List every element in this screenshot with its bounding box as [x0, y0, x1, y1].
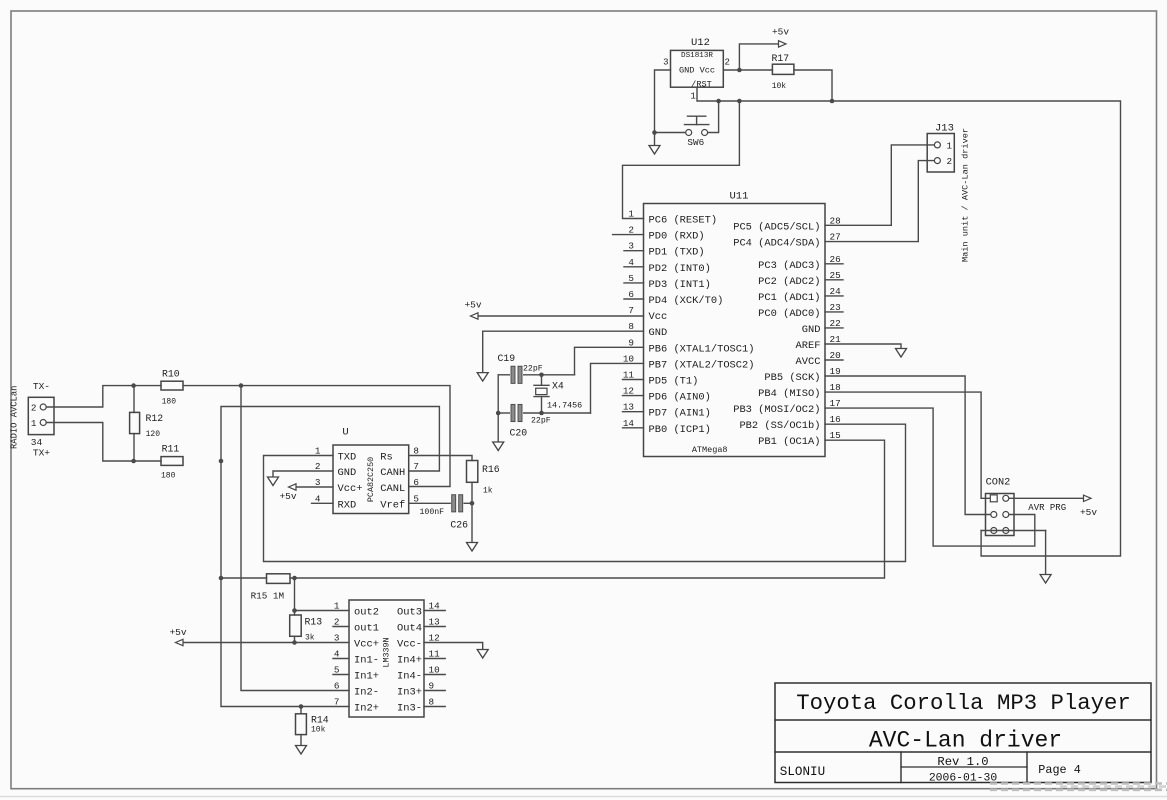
- svg-text:CON2: CON2: [986, 477, 1011, 489]
- svg-text:Vcc-: Vcc-: [397, 639, 422, 651]
- svg-text:DS1813R: DS1813R: [681, 52, 713, 60]
- svg-text:/RST: /RST: [691, 80, 712, 90]
- U pin 2/7 labels: [315, 461, 419, 479]
- node junction R11/CANH/In2+: [219, 459, 224, 464]
- svg-text:U11: U11: [730, 191, 749, 203]
- wire In2- vertical: [241, 386, 349, 691]
- node junction PC6 branch: [737, 99, 742, 104]
- svg-text:C20: C20: [510, 428, 528, 439]
- svg-text:GND: GND: [802, 324, 821, 336]
- svg-text:Vcc+: Vcc+: [354, 639, 379, 651]
- U pin 4/5 labels: [315, 493, 419, 511]
- U pin 3/6 labels: [315, 477, 419, 495]
- U11 pin 3 PD1 (TXD): [624, 241, 705, 259]
- svg-text:C26: C26: [450, 520, 468, 531]
- IC LM339N box: [349, 600, 424, 717]
- wire R11 to CANH: [221, 407, 439, 472]
- resistor R11: [161, 444, 183, 481]
- svg-text:U: U: [342, 427, 348, 439]
- resistor R16: [467, 461, 500, 496]
- ground (Vref/C26): [467, 543, 478, 552]
- svg-text:CANL: CANL: [380, 483, 405, 495]
- node junction R14/In2+ line: [299, 704, 304, 709]
- wire XTAL2 pin10 to C20/X4: [591, 363, 644, 413]
- wire Vcc pin7 to +5v arrow: [478, 315, 644, 317]
- svg-text:In1+: In1+: [354, 671, 379, 683]
- U11 pin 20 AVCC: [796, 350, 843, 368]
- svg-text:R17: R17: [772, 53, 790, 64]
- svg-text:7: 7: [413, 461, 419, 472]
- ground (C19/C20): [493, 442, 504, 451]
- svg-text:PD2 (INT0): PD2 (INT0): [649, 263, 711, 275]
- U11 pin 16 PB2 (SS/OC1b): [739, 414, 840, 432]
- power +5v (CON2): [1080, 495, 1097, 518]
- U11 pin 14 PB0 (ICP1): [623, 418, 711, 436]
- wire XTAL1 pin9 to C19/X4: [575, 347, 644, 375]
- node junction C20/X4 bottom: [539, 411, 544, 416]
- wire Vref node to ground: [471, 503, 473, 542]
- svg-text:AVR PRG: AVR PRG: [1028, 503, 1066, 513]
- U11 pin 13 PD7 (AIN1): [623, 402, 711, 420]
- svg-text:3k: 3k: [305, 634, 315, 643]
- svg-text:1: 1: [628, 209, 634, 220]
- svg-text:PC6 (RESET): PC6 (RESET): [649, 215, 718, 227]
- svg-text:PB6 (XTAL1/TOSC1): PB6 (XTAL1/TOSC1): [649, 343, 755, 355]
- svg-text:R12: R12: [146, 413, 164, 424]
- ground (R14): [296, 746, 307, 755]
- IC U12 box (DS1813R): [671, 37, 724, 90]
- svg-text:PC3 (ADC3): PC3 (ADC3): [758, 260, 820, 272]
- svg-text:PC0 (ADC0): PC0 (ADC0): [758, 308, 820, 320]
- ground (AREF): [896, 349, 907, 358]
- U12 pin 1 label: [690, 92, 695, 102]
- svg-text:PD6 (AIN0): PD6 (AIN0): [649, 392, 711, 404]
- svg-text:In2-: In2-: [354, 687, 379, 699]
- U11 pin 19 PB5 (SCK): [764, 366, 840, 384]
- svg-text:2: 2: [947, 156, 953, 167]
- IC U box (PCA82C250): [333, 427, 409, 514]
- label AVR PRG: [1028, 503, 1066, 513]
- node junction C19/X4 top: [539, 373, 544, 378]
- svg-text:In4+: In4+: [397, 655, 422, 667]
- svg-text:R13: R13: [305, 617, 323, 628]
- svg-text:AVC-Lan driver: AVC-Lan driver: [869, 728, 1062, 754]
- node junction R10/In2- branch: [239, 383, 244, 388]
- svg-text:In1-: In1-: [354, 655, 379, 667]
- wire U12 pin3 to SW6 and ground: [655, 70, 671, 146]
- svg-text:+5v: +5v: [772, 27, 789, 38]
- svg-text:Rs: Rs: [380, 452, 392, 464]
- node junction R12 bottom: [131, 459, 136, 464]
- svg-text:GND: GND: [338, 467, 357, 479]
- svg-text:PD7 (AIN1): PD7 (AIN1): [649, 408, 711, 420]
- resistor R12: [130, 386, 164, 461]
- ground (U11 pin8): [477, 373, 488, 382]
- wire Vref pin5 to C26: [408, 502, 410, 504]
- LM339 pin 1/14 out2/Out3: [334, 601, 445, 619]
- ground (below SW6 left): [649, 146, 660, 155]
- switch SW6: [685, 116, 709, 148]
- U pin 1/8 labels: [315, 446, 419, 464]
- node junction R15 left: [219, 576, 224, 581]
- U11 pin 23 PC0 (ADC0): [758, 302, 843, 320]
- wire PC4/SDA to J13 pin2: [825, 161, 934, 242]
- node junction R12 top: [131, 383, 136, 388]
- connector CON2 box: [986, 477, 1015, 536]
- wire R15 left to In2+ vertical: [221, 577, 267, 579]
- svg-text:AREF: AREF: [796, 340, 821, 352]
- wire GND pin8 to ground: [483, 331, 644, 372]
- wire U GND pin2 to ground: [273, 471, 333, 477]
- U11 pin 4 PD2 (INT0): [624, 257, 711, 275]
- label Main unit / AVC-Lan driver: [961, 128, 971, 262]
- wire C20 row: [498, 412, 590, 414]
- svg-text:14.7456: 14.7456: [547, 401, 582, 411]
- wire Vref row: [409, 502, 472, 504]
- node junction pin3/SW6/gnd: [652, 130, 657, 135]
- U11 pin 7 Vcc: [628, 305, 667, 323]
- U11 pin 28 PC5 (ADC5/SCL): [733, 215, 840, 233]
- svg-text:GND Vcc: GND Vcc: [679, 66, 715, 76]
- label RADIO AVCLan: [10, 386, 20, 449]
- svg-text:PD1 (TXD): PD1 (TXD): [649, 247, 705, 259]
- ground (CON2): [1040, 575, 1051, 584]
- svg-text:22pF: 22pF: [523, 365, 543, 374]
- wire U Vcc+ pin3 to +5v arrow: [296, 486, 333, 488]
- svg-text:1: 1: [315, 446, 321, 457]
- svg-text:J13: J13: [935, 123, 954, 135]
- svg-text:In2+: In2+: [354, 703, 379, 715]
- node junction +5v branch: [737, 68, 742, 73]
- svg-text:C19: C19: [498, 353, 516, 364]
- wire SW6 left contact: [655, 132, 686, 134]
- U11 pin 5 PD3 (INT1): [624, 273, 711, 291]
- svg-text:R10: R10: [162, 369, 180, 380]
- svg-text:CANH: CANH: [380, 467, 405, 479]
- resistor R10: [161, 369, 183, 407]
- LM339 pin 3/12 Vcc+/Vcc-: [334, 633, 440, 651]
- wire RESET rail (U12 pin1 to CON2): [697, 87, 1121, 556]
- U11 pin 8 GND: [628, 321, 667, 339]
- U11 pin 18 PB4 (MISO): [758, 382, 841, 400]
- svg-text:SLONIU: SLONIU: [780, 765, 825, 779]
- U12 pin 2 label: [725, 58, 730, 68]
- resistor R17: [772, 53, 794, 91]
- svg-text:out2: out2: [354, 607, 379, 619]
- svg-text:180: 180: [161, 472, 176, 481]
- wire MOSI to CON2: [825, 408, 1035, 546]
- node junction R13/Vcc+ line: [292, 640, 297, 645]
- node junction C20 left: [496, 411, 501, 416]
- svg-text:U12: U12: [691, 37, 710, 49]
- wire CON2 ground leg: [1045, 531, 1047, 575]
- svg-text:34: 34: [31, 437, 43, 448]
- svg-text:PB2 (SS/OC1b): PB2 (SS/OC1b): [739, 420, 820, 432]
- U11 pin 6 PD4 (XCK/T0): [624, 289, 723, 307]
- svg-text:PD3 (INT1): PD3 (INT1): [649, 279, 711, 291]
- wire crystal ground leg: [497, 375, 499, 442]
- svg-text:TXD: TXD: [338, 452, 357, 464]
- U11 pin 25 PC2 (ADC2): [758, 270, 843, 288]
- svg-text:Out4: Out4: [397, 623, 422, 635]
- svg-text:Vcc+: Vcc+: [338, 483, 363, 495]
- U12 pin 3 label: [663, 58, 668, 68]
- svg-text:7: 7: [628, 305, 634, 316]
- wire SW6 right to RESET rail: [708, 101, 719, 133]
- svg-text:AVCC: AVCC: [796, 356, 821, 368]
- wire PB1/OC1A to R15 node: [295, 440, 885, 578]
- U11 pin 11 PD5 (T1): [623, 370, 699, 388]
- svg-text:+5v: +5v: [1080, 507, 1097, 518]
- wire TX- pin2 to R10: [46, 386, 161, 407]
- resistor R13: [290, 611, 323, 643]
- svg-text:PD5 (T1): PD5 (T1): [649, 376, 699, 388]
- svg-text:PCA82C250: PCA82C250: [366, 457, 376, 502]
- U11 pin 9 PB6 (XTAL1/TOSC1): [628, 337, 754, 355]
- svg-text:2: 2: [31, 403, 37, 414]
- svg-text:1k: 1k: [483, 487, 493, 496]
- svg-text:Main unit / AVC-Lan driver: Main unit / AVC-Lan driver: [961, 128, 971, 262]
- ground (U pin2): [268, 477, 279, 486]
- svg-text:In3+: In3+: [397, 687, 422, 699]
- node junction R15/OC1A: [292, 576, 297, 581]
- title block frame: [775, 683, 1151, 783]
- node junction out2/R13: [292, 608, 297, 613]
- svg-text:Rev 1.0: Rev 1.0: [937, 755, 988, 769]
- svg-text:TX+: TX+: [33, 448, 50, 459]
- capacitor C26: [420, 495, 469, 531]
- resistor R14: [296, 707, 329, 746]
- wire +5v to LM339 Vcc+ pin3: [183, 642, 349, 644]
- wire LM339 Vcc- pin12 to ground: [424, 643, 483, 650]
- wire CON2 +5v: [1009, 497, 1084, 499]
- U11 pin 26 PC3 (ADC3): [758, 254, 843, 272]
- svg-text:100nF: 100nF: [420, 508, 445, 517]
- svg-text:PC4 (ADC4/SDA): PC4 (ADC4/SDA): [733, 238, 820, 250]
- svg-text:+5v: +5v: [169, 627, 186, 638]
- wire U12 pin2 to R17: [723, 69, 772, 71]
- svg-text:1: 1: [31, 418, 37, 429]
- svg-text:180: 180: [162, 398, 177, 407]
- power +5v (U11 Vcc): [464, 300, 481, 320]
- U pin4 RXD stub: [312, 502, 333, 504]
- LM339 pin 4/11 In1-/In4+: [333, 649, 445, 667]
- svg-text:22pF: 22pF: [531, 417, 551, 426]
- LM339 pin 6/9 In2-/In3+: [334, 681, 445, 699]
- author SLONIU: [780, 765, 825, 779]
- page text: [1038, 763, 1080, 777]
- svg-text:PC5 (ADC5/SCL): PC5 (ADC5/SCL): [733, 221, 820, 233]
- wire +5v branch at U12: [739, 44, 778, 70]
- svg-text:R16: R16: [482, 464, 500, 475]
- connector J13: [927, 123, 954, 173]
- capacitor C20: [510, 404, 551, 438]
- U11 pin 27 PC4 (ADC4/SDA): [733, 232, 840, 250]
- svg-text:Page 4: Page 4: [1038, 763, 1080, 777]
- svg-text:R14: R14: [311, 715, 329, 726]
- svg-text:7: 7: [334, 697, 340, 708]
- power +5v (top): [772, 27, 789, 48]
- svg-text:Out3: Out3: [397, 607, 422, 619]
- wire C19 row: [498, 374, 574, 376]
- wire PC5/SCL to J13 pin1: [825, 145, 934, 225]
- svg-text:2: 2: [725, 58, 730, 68]
- svg-text:TX-: TX-: [33, 381, 50, 392]
- U11 pin 17 PB3 (MOSI/OC2): [733, 398, 840, 416]
- wire TX+ pin1 to R11: [46, 423, 161, 462]
- svg-text:ATMega8: ATMega8: [692, 445, 728, 455]
- svg-text:+5v: +5v: [279, 491, 296, 502]
- rev text: [937, 755, 988, 769]
- svg-text:6: 6: [334, 681, 340, 692]
- watermark (bottom right): [990, 784, 1167, 790]
- U11 pin 12 PD6 (AIN0): [623, 386, 711, 404]
- wire Rs pin8 to R16: [409, 456, 472, 461]
- svg-text:Vcc: Vcc: [649, 311, 668, 323]
- node junction Vref/R16: [470, 501, 475, 506]
- svg-text:PB7 (XTAL2/TOSC2): PB7 (XTAL2/TOSC2): [649, 359, 755, 371]
- svg-text:Vref: Vref: [380, 499, 405, 511]
- svg-text:RADIO AVCLan: RADIO AVCLan: [10, 386, 20, 449]
- svg-text:GND: GND: [649, 327, 668, 339]
- svg-text:LM339N: LM339N: [382, 637, 392, 667]
- crystal X4: [534, 375, 582, 413]
- date text: [929, 773, 998, 785]
- page bottom paper edge: [0, 796, 1167, 798]
- LM339 pin 5/10 In1+/In4-: [333, 665, 445, 683]
- svg-text:PB1 (OC1A): PB1 (OC1A): [758, 436, 820, 448]
- svg-text:out1: out1: [354, 623, 379, 635]
- svg-text:In3-: In3-: [397, 703, 422, 715]
- svg-text:PB4 (MISO): PB4 (MISO): [758, 388, 820, 400]
- LM339 pin 2/13 out1/Out4: [333, 617, 445, 635]
- svg-text:10k: 10k: [311, 726, 326, 735]
- U11 pin 10 PB7 (XTAL2/TOSC2): [623, 353, 755, 371]
- wire CON2 bottom row: [981, 530, 1046, 532]
- subtitle text: [869, 728, 1062, 754]
- svg-text:2006-01-30: 2006-01-30: [929, 773, 998, 785]
- svg-text:1: 1: [690, 92, 695, 102]
- power +5v (U pin3): [279, 484, 296, 502]
- svg-text:SW6: SW6: [687, 137, 704, 148]
- wire R16 to Vref node: [471, 482, 473, 503]
- node junction SW6/RESET rail: [716, 99, 721, 104]
- U11 pin 2 PD0 (RXD): [613, 225, 705, 243]
- ground (LM339 Vcc-): [477, 650, 488, 659]
- capacitor C19: [498, 353, 543, 383]
- wire MISO to CON2: [825, 392, 991, 498]
- svg-text:PC1 (ADC1): PC1 (ADC1): [758, 292, 820, 304]
- LM339 pin 7/8 In2+/In3-: [334, 697, 445, 715]
- wire In2+ vertical: [221, 461, 349, 707]
- svg-text:+5v: +5v: [464, 300, 481, 311]
- svg-text:R11: R11: [162, 444, 180, 455]
- svg-text:R15 1M: R15 1M: [251, 591, 284, 602]
- wire SCK to CON2: [825, 376, 991, 515]
- wire RESET rail to U11 pin1: [623, 101, 740, 219]
- svg-text:PB5 (SCK): PB5 (SCK): [764, 372, 820, 384]
- node junction R17/RESET rail: [830, 99, 835, 104]
- svg-text:Toyota Corolla MP3 Player: Toyota Corolla MP3 Player: [796, 690, 1131, 716]
- svg-text:PB0 (ICP1): PB0 (ICP1): [649, 424, 711, 436]
- svg-text:PC2 (ADC2): PC2 (ADC2): [758, 276, 820, 288]
- svg-text:PD4 (XCK/T0): PD4 (XCK/T0): [649, 295, 724, 307]
- U11 pin 24 PC1 (ADC1): [758, 286, 843, 304]
- power +5v (LM339): [169, 627, 186, 646]
- wire R10 to CANL: [183, 386, 450, 487]
- wire AREF to ground: [825, 344, 901, 349]
- connector J34 (RADIO AVC-Lan): [28, 381, 54, 459]
- svg-text:6: 6: [413, 477, 419, 488]
- wire PB2/SS to U TXD: [264, 424, 906, 561]
- U11 pin 15 PB1 (OC1A): [758, 430, 841, 448]
- title text: [796, 690, 1131, 716]
- wire R15 right to out2: [290, 578, 295, 611]
- svg-text:X4: X4: [552, 381, 564, 392]
- svg-text:1: 1: [947, 140, 953, 151]
- resistor R15: [251, 574, 290, 602]
- wire R17 to RESET rail: [794, 70, 832, 101]
- wire out2 pin1: [295, 610, 350, 612]
- U11 pin 1 PC6 (RESET): [628, 209, 717, 227]
- U11 pin 21 AREF: [796, 334, 842, 352]
- svg-text:3: 3: [663, 58, 668, 68]
- U11 pin 22 GND: [802, 318, 843, 336]
- svg-text:In4-: In4-: [397, 671, 422, 683]
- IC U11 box (ATmega8): [644, 191, 826, 457]
- svg-text:PB3 (MOSI/OC2): PB3 (MOSI/OC2): [733, 404, 820, 416]
- svg-text:PD0 (RXD): PD0 (RXD): [649, 231, 705, 243]
- svg-text:10k: 10k: [772, 82, 787, 91]
- svg-text:120: 120: [146, 430, 161, 439]
- svg-text:RXD: RXD: [338, 499, 357, 511]
